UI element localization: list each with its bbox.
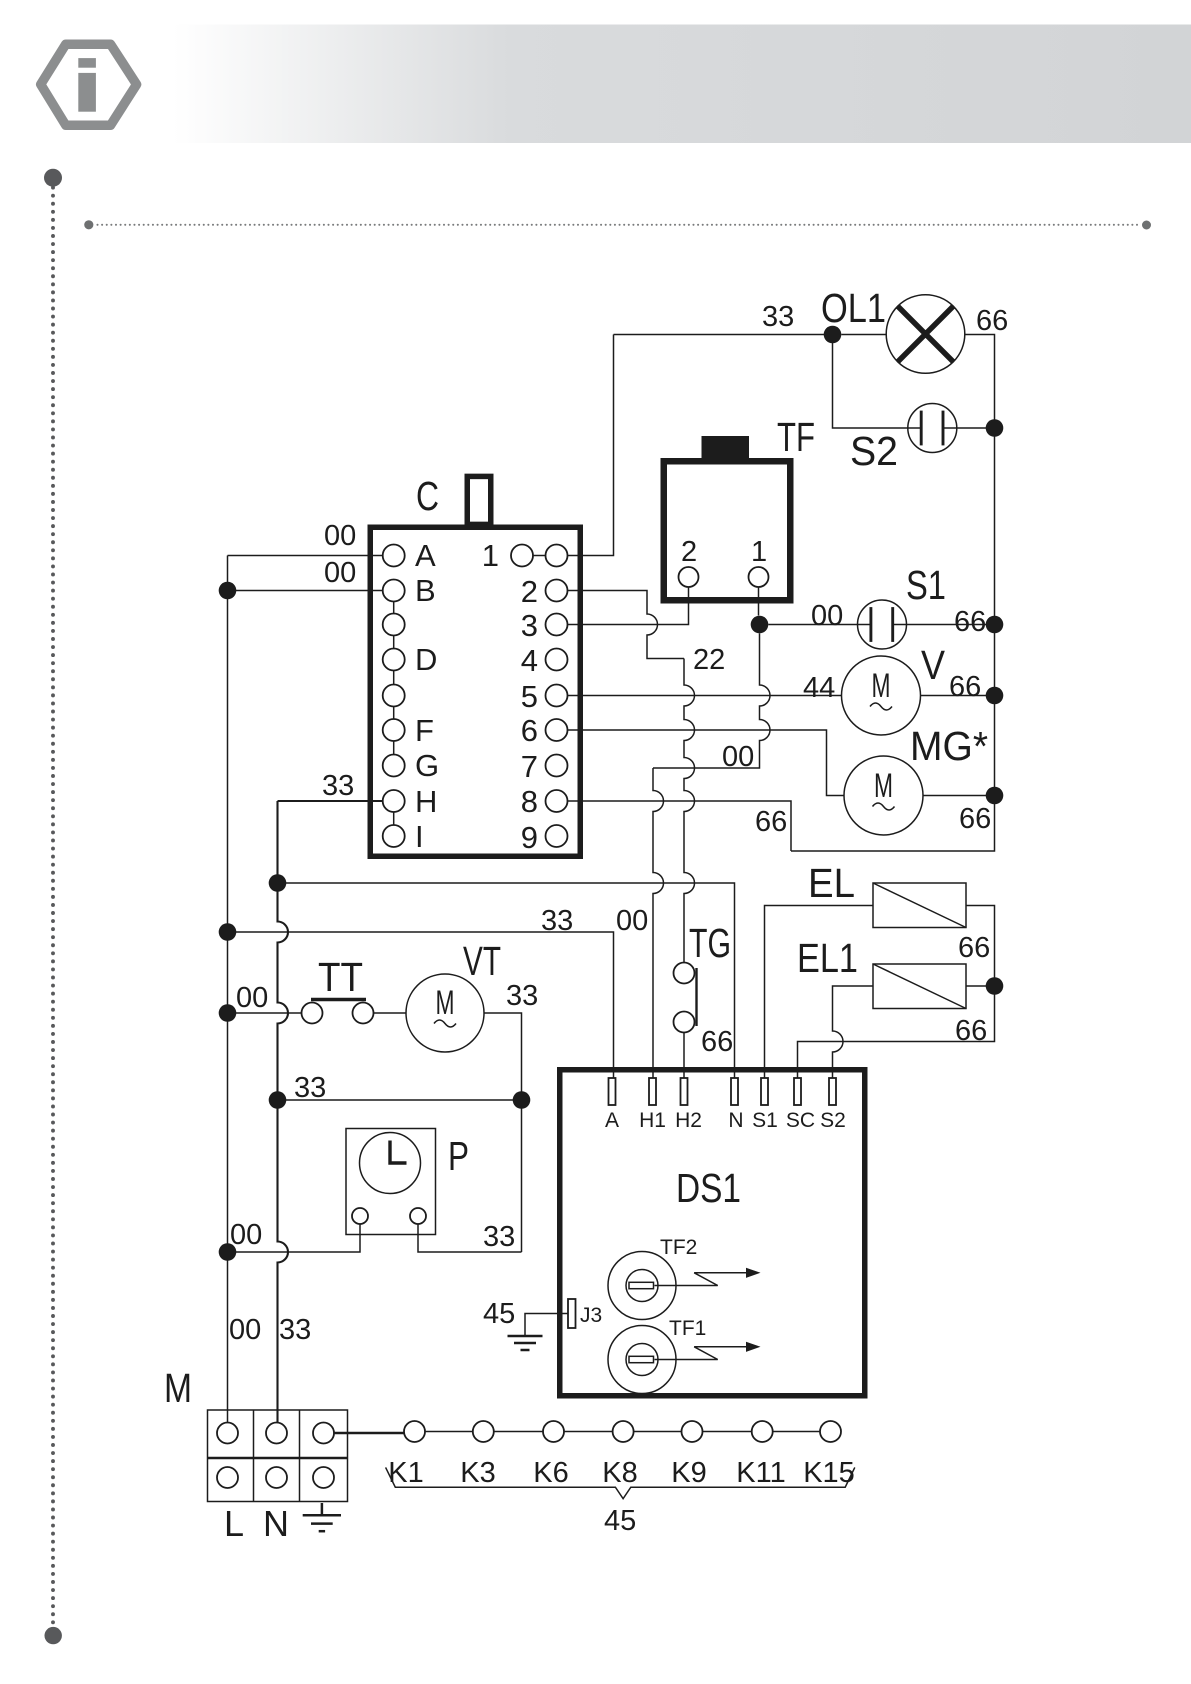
svg-text:TF1: TF1 [669, 1317, 706, 1340]
terminal H1 [649, 1078, 656, 1105]
svg-text:1: 1 [751, 536, 767, 568]
C left pin chain H-I [393, 812, 395, 825]
motor MG [844, 756, 923, 835]
K labels [388, 1457, 855, 1489]
wire TT to VT [374, 1012, 407, 1014]
svg-text:H1: H1 [639, 1109, 666, 1132]
C pin G [383, 755, 405, 777]
svg-text:M: M [874, 767, 893, 805]
lamp OL1 [886, 295, 965, 374]
svg-text:00: 00 [811, 600, 843, 632]
wire TF1 net vertical with hops [653, 633, 770, 768]
node 33 rail 1100 [269, 1091, 287, 1109]
rail 33 vertical with hops [278, 801, 289, 1422]
connector C body [370, 527, 580, 856]
svg-text:L: L [224, 1503, 244, 1544]
svg-text:00: 00 [236, 982, 268, 1014]
svg-text:33: 33 [483, 1221, 515, 1253]
svg-text:K6: K6 [533, 1457, 568, 1489]
ground symbol J3 [508, 1336, 543, 1350]
svg-text:66: 66 [701, 1026, 733, 1058]
wire C pin3 to TF pin2 [568, 587, 689, 625]
svg-text:V: V [921, 642, 946, 688]
svg-text:66: 66 [958, 932, 990, 964]
wire EL1 left to S2 terminal with hop [833, 986, 874, 1078]
svg-text:3: 3 [521, 608, 538, 643]
switch TT contacts [302, 1003, 323, 1024]
svg-text:OL1: OL1 [821, 285, 886, 331]
svg-text:00: 00 [229, 1314, 261, 1346]
bracket 45 [386, 1467, 855, 1498]
svg-text:H: H [415, 784, 437, 819]
info icon hexagon [41, 44, 137, 125]
left vertical dotted rule [44, 169, 62, 187]
C pin H [383, 790, 405, 812]
svg-text:33: 33 [506, 980, 538, 1012]
node at OL1 [824, 326, 842, 344]
wire S1 to rail [907, 624, 995, 626]
thermostat TF2 [608, 1252, 761, 1320]
TF pin 2 [679, 567, 699, 587]
svg-text:66: 66 [949, 671, 981, 703]
svg-text:45: 45 [483, 1298, 515, 1330]
svg-text:00: 00 [324, 557, 356, 589]
svg-text:33: 33 [279, 1314, 311, 1346]
node B on 00 rail [219, 582, 237, 600]
svg-text:SC: SC [786, 1109, 815, 1132]
wire EL1 right to rail [966, 985, 995, 987]
wire pin1 up to lamp line [568, 335, 614, 556]
node TF pin1 / S1 [751, 616, 769, 634]
wire H to 33 rail [278, 800, 383, 802]
timer P clock [360, 1133, 421, 1194]
C pin 6 [546, 719, 568, 741]
svg-text:66: 66 [955, 1015, 987, 1047]
connector J3 [568, 1299, 576, 1328]
terminal SC [794, 1078, 801, 1105]
svg-text:22: 22 [693, 644, 725, 676]
svg-text:33: 33 [322, 770, 354, 802]
wire C pin8 to 66 corner [568, 801, 792, 851]
C left pin letters [415, 538, 439, 854]
motor VT [406, 974, 484, 1052]
svg-text:K8: K8 [602, 1457, 637, 1489]
svg-text:66: 66 [755, 806, 787, 838]
node VT/P junction [513, 1091, 531, 1109]
motor V [842, 656, 921, 735]
C pin 7 [546, 755, 568, 777]
svg-text:VT: VT [463, 938, 501, 984]
svg-text:7: 7 [521, 749, 538, 784]
svg-text:TG: TG [689, 920, 731, 966]
svg-text:33: 33 [294, 1072, 326, 1104]
terminal A [609, 1078, 616, 1105]
C pin 8 [546, 790, 568, 812]
svg-text:N: N [728, 1109, 743, 1132]
svg-text:9: 9 [521, 820, 538, 855]
wire node down to S2 [833, 335, 908, 429]
TF top tab filled [702, 436, 750, 459]
C pin 9 [546, 825, 568, 847]
switch S2 [908, 404, 957, 453]
svg-text:00: 00 [324, 520, 356, 552]
C pin D [383, 649, 405, 671]
timer P terminals [352, 1208, 368, 1224]
wire top 33 line to OL1 node [614, 334, 833, 336]
connector C key tab [467, 476, 491, 524]
svg-text:TT: TT [318, 954, 363, 1000]
C pin E [383, 685, 405, 707]
wire C pin6 to motor MG [568, 730, 845, 796]
svg-text:33: 33 [541, 905, 573, 937]
svg-text:2: 2 [681, 536, 697, 568]
wire 00 net down to H1 with hops [653, 768, 664, 1078]
TF pin 1 [749, 567, 769, 587]
svg-text:K3: K3 [460, 1457, 495, 1489]
node 33 rail / N wire [269, 874, 287, 892]
wire S2 to rail [957, 427, 995, 429]
svg-text:66: 66 [954, 606, 986, 638]
switch TT bar [311, 998, 366, 1001]
svg-text:M: M [872, 667, 891, 705]
C pin 4 [546, 649, 568, 671]
TG bottom contact [674, 1012, 695, 1033]
top horizontal dotted rule [84, 220, 93, 229]
DS1 body [560, 1070, 865, 1396]
C pin I [383, 825, 405, 847]
C pin 5 [546, 685, 568, 707]
svg-text:EL: EL [808, 860, 855, 906]
C pin A [383, 545, 405, 567]
terminal labels [605, 1109, 846, 1132]
wire pin2net vertical with hops to TG [684, 659, 695, 963]
svg-text:4: 4 [521, 643, 538, 678]
wire V to rail [921, 695, 995, 697]
M terminal circles [217, 1423, 238, 1444]
node 00 rail / A wire [219, 923, 237, 941]
node rail S2 [986, 419, 1004, 437]
svg-text:S1: S1 [906, 562, 946, 608]
node rail S1 [986, 616, 1004, 634]
info icon i glyph [78, 58, 96, 112]
wire to terminal A [228, 932, 614, 1078]
svg-text:00: 00 [230, 1219, 262, 1251]
svg-text:66: 66 [959, 803, 991, 835]
wire C pin2 jog down [568, 591, 685, 659]
M block frame [208, 1410, 348, 1502]
terminal S1 [761, 1078, 768, 1105]
svg-text:H2: H2 [675, 1109, 702, 1132]
node 00 rail 1252 [219, 1243, 237, 1261]
C right pin numbers [482, 538, 538, 855]
svg-text:EL1: EL1 [797, 935, 858, 981]
node rail EL1 [986, 977, 1004, 995]
svg-text:2: 2 [521, 574, 538, 609]
wire EL left to S1 terminal [765, 906, 874, 1078]
svg-text:B: B [415, 573, 436, 608]
svg-text:1: 1 [482, 538, 499, 573]
node 00 rail / TT wire [219, 1004, 237, 1022]
timer P box [346, 1129, 436, 1235]
wire 1100 [278, 1099, 522, 1101]
svg-text:A: A [605, 1109, 619, 1132]
wire A to left rail [228, 555, 383, 557]
wire P right to junction [418, 1224, 522, 1252]
TG top contact [674, 963, 695, 984]
svg-text:33: 33 [762, 301, 794, 333]
svg-text:D: D [415, 642, 437, 677]
wire MG to rail [923, 795, 995, 797]
left rail 00 vertical [227, 556, 229, 1423]
svg-text:66: 66 [976, 305, 1008, 337]
wire 45 to J3 [525, 1314, 568, 1337]
TF body [664, 461, 791, 600]
svg-text:MG*: MG* [910, 723, 988, 769]
svg-text:TF: TF [777, 414, 815, 460]
svg-text:6: 6 [521, 713, 538, 748]
wire node to S1 [768, 624, 857, 626]
heater EL box [873, 883, 966, 928]
svg-text:P: P [448, 1133, 469, 1179]
svg-text:S2: S2 [850, 428, 898, 474]
C pin 2 [546, 580, 568, 602]
K row circles and links [404, 1421, 841, 1442]
wire P left to rail [228, 1224, 361, 1252]
svg-text:J3: J3 [580, 1304, 602, 1327]
ground symbol mains [303, 1503, 341, 1531]
C left pin chain B-C-D-E-F-G [393, 602, 395, 756]
terminal H2 [681, 1078, 688, 1105]
node rail MG [986, 787, 1004, 805]
svg-text:TF2: TF2 [660, 1236, 697, 1259]
wire C pin5 to motor V [568, 695, 842, 697]
heater EL1 box [873, 964, 966, 1009]
svg-text:K9: K9 [671, 1457, 706, 1489]
svg-text:44: 44 [803, 672, 835, 704]
svg-text:M: M [164, 1365, 192, 1411]
wire TG to H2 [683, 1033, 685, 1078]
terminal N [731, 1078, 738, 1105]
svg-text:00: 00 [616, 905, 648, 937]
switch S1 [858, 600, 907, 649]
C pin B [383, 580, 405, 602]
wire node to lamp [841, 334, 886, 336]
svg-text:M: M [436, 984, 455, 1022]
C pin 1 link [533, 555, 546, 557]
svg-text:S1: S1 [752, 1109, 778, 1132]
C pin 1 inner circle [511, 545, 533, 567]
wire lamp to right rail corner [791, 335, 995, 852]
wire 00 rail to TT [228, 1012, 302, 1014]
wire M to K row [334, 1432, 404, 1435]
svg-text:F: F [415, 713, 434, 748]
svg-text:G: G [415, 748, 439, 783]
wire TF pin1 down to node [758, 587, 760, 616]
C pin 3 [546, 614, 568, 636]
svg-text:A: A [415, 538, 436, 573]
C pin F [383, 719, 405, 741]
svg-text:I: I [415, 819, 424, 854]
svg-text:00: 00 [722, 741, 754, 773]
C pin 1 outer circle [546, 545, 568, 567]
svg-text:5: 5 [521, 679, 538, 714]
node rail V [986, 687, 1004, 705]
svg-text:DS1: DS1 [676, 1165, 741, 1211]
TG blade [695, 968, 697, 1026]
svg-text:45: 45 [604, 1505, 636, 1537]
wire to terminal N [278, 883, 735, 1078]
wire VT to corner down [484, 1013, 522, 1252]
terminal S2 [829, 1078, 836, 1105]
svg-text:K11: K11 [736, 1457, 785, 1489]
header gradient bar [173, 25, 1191, 144]
C pin C [383, 614, 405, 636]
svg-text:C: C [416, 473, 439, 519]
svg-text:S2: S2 [820, 1109, 846, 1132]
thermostat TF1 [608, 1326, 761, 1394]
svg-text:8: 8 [521, 784, 538, 819]
wire B to left rail [228, 590, 383, 592]
wire EL right to rail [798, 906, 995, 1078]
svg-text:N: N [263, 1503, 289, 1544]
